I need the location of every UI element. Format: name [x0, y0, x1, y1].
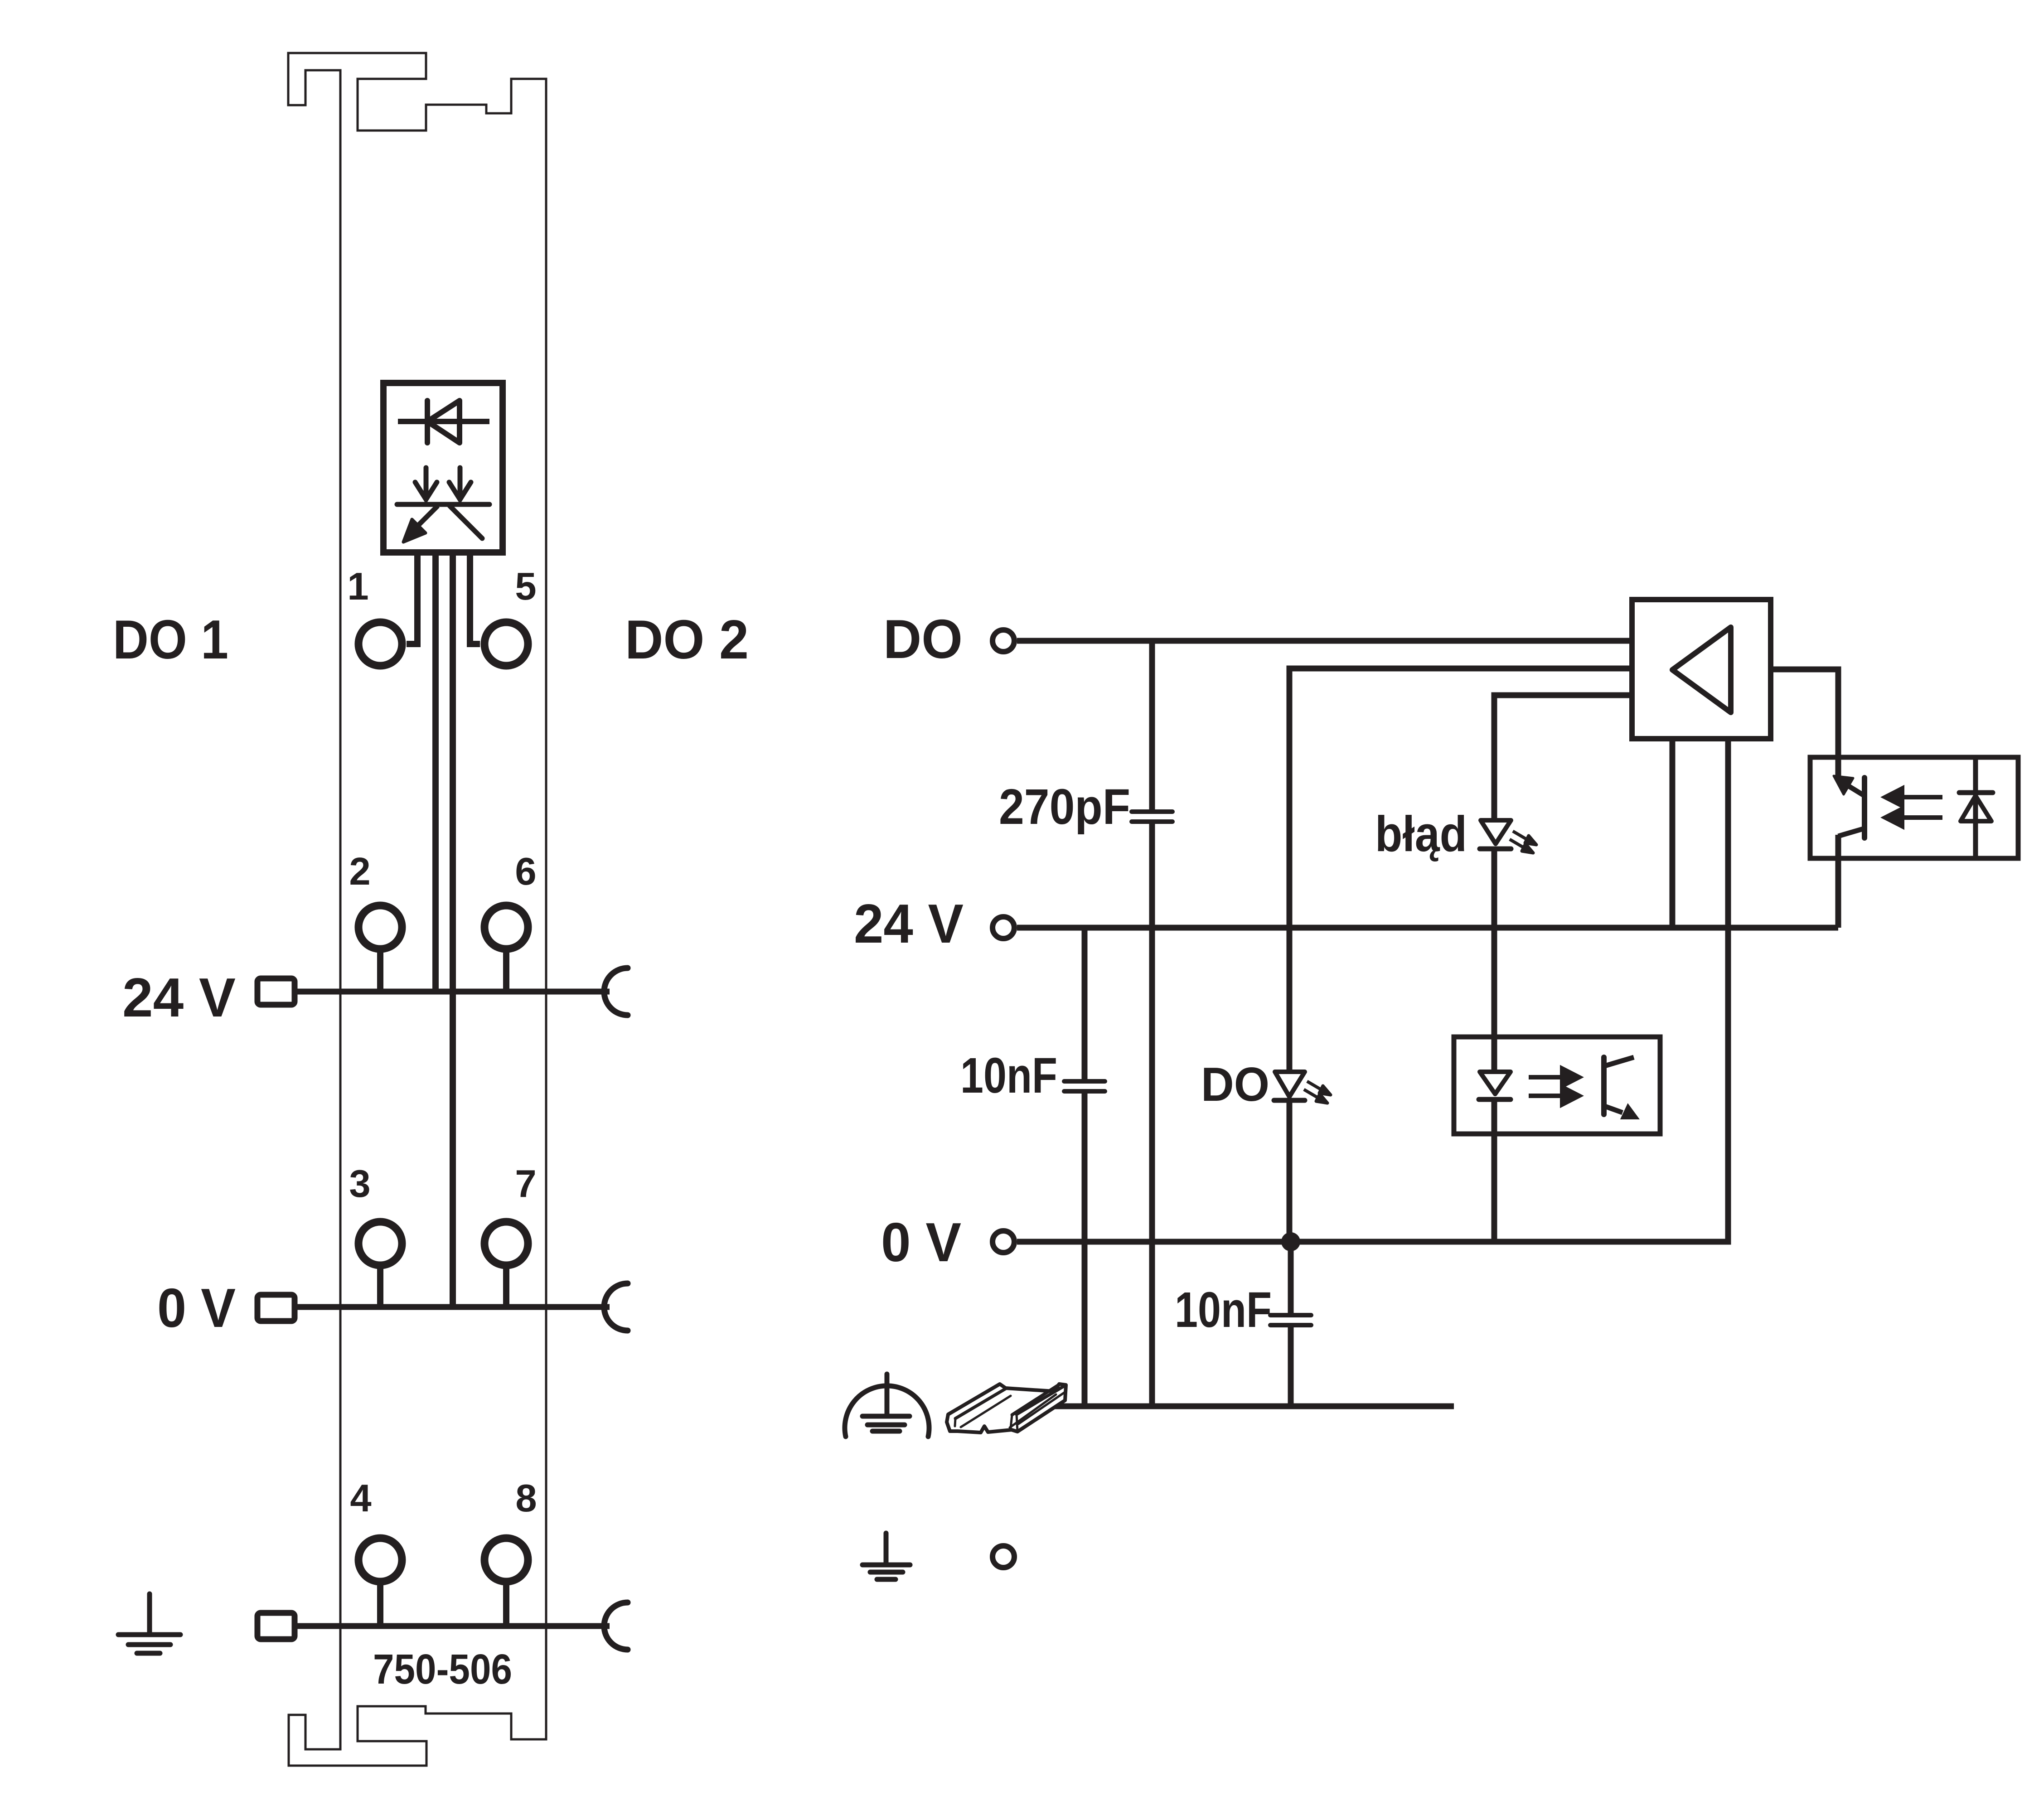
svg-text:0 V: 0 V — [157, 1277, 236, 1339]
stem contact 4 — [377, 1584, 383, 1626]
module right edge wire — [545, 181, 547, 1739]
contact 8 circle — [484, 1538, 528, 1582]
24V terminal circle — [993, 917, 1014, 939]
capacitor C2 10nF branch wire upper — [1082, 928, 1088, 1079]
earth clamp arc left — [604, 1602, 628, 1650]
svg-text:8: 8 — [515, 1477, 537, 1520]
LED D3 cathode bar — [1479, 1097, 1511, 1102]
pin wire 5 from box — [470, 552, 480, 644]
wire opto2 LED down to 0V — [1492, 1099, 1497, 1242]
svg-text:5: 5 — [515, 565, 536, 608]
optocoupler 1 box — [1810, 757, 2018, 858]
LED D3 triangle in opto 2 — [1480, 1072, 1511, 1094]
svg-text:3: 3 — [349, 1162, 370, 1205]
diode D1 axis wire — [398, 419, 489, 424]
svg-text:270pF: 270pF — [999, 779, 1130, 835]
svg-text:6: 6 — [515, 850, 536, 893]
diode D1 cathode bar — [425, 401, 430, 443]
stem contact 2 — [377, 952, 383, 992]
stem contact 3 — [377, 1268, 383, 1307]
module outline bottom — [289, 1677, 546, 1766]
0V terminal circle — [993, 1231, 1014, 1253]
svg-text:DO: DO — [1201, 1058, 1269, 1111]
LED pair arrow 1 — [415, 468, 437, 499]
amplifier triangle — [1672, 627, 1731, 712]
stem contact 8 — [503, 1584, 509, 1626]
bottom terminal circle — [993, 1546, 1014, 1568]
0V terminal rect left — [257, 1295, 295, 1321]
pin wire to 0V rail — [450, 552, 456, 1307]
phototransistor Q1 base bar — [1862, 778, 1867, 838]
earth rail wire left — [295, 1623, 610, 1629]
diode D2 cathode bar — [1959, 790, 1993, 795]
svg-text:7: 7 — [515, 1162, 536, 1205]
wire DO LED down to junction — [1287, 1100, 1293, 1242]
24V clamp arc left — [604, 968, 628, 1015]
optocoupler 2 box — [1454, 1037, 1660, 1134]
LED DO cathode bar — [1274, 1098, 1305, 1103]
24V rail wire left — [295, 989, 610, 995]
amplifier box U2 — [1632, 600, 1771, 739]
phototransistor Q1 collector — [1838, 828, 1864, 836]
contact 7 circle — [484, 1222, 528, 1265]
capacitor C2 10nF plates — [1064, 1079, 1105, 1084]
svg-text:błąd: błąd — [1375, 806, 1467, 862]
LED pair indicator bar — [397, 502, 489, 507]
junction dot 0V/10nF — [1281, 1232, 1300, 1251]
DO LED emission arrows — [1304, 1081, 1331, 1103]
0V net wire with riser to amp — [1017, 739, 1728, 1242]
stem contact 7 — [503, 1268, 509, 1307]
contact 6 circle — [484, 905, 528, 949]
24V terminal rect left — [257, 978, 295, 1005]
earth terminal rect left — [257, 1613, 295, 1639]
contact 3 circle — [358, 1222, 402, 1265]
capacitor C3 10nF branch wire upper — [1288, 1242, 1294, 1313]
svg-text:0 V: 0 V — [881, 1211, 961, 1273]
svg-text:1: 1 — [347, 565, 368, 608]
capacitor C1 270pF branch wire lower — [1149, 824, 1155, 1406]
svg-text:2: 2 — [349, 850, 370, 893]
opto 2 light arrows — [1529, 1069, 1579, 1104]
diode D2 triangle — [1961, 796, 1991, 821]
wire optocoupler 1 to 24V end — [1835, 835, 1841, 928]
wire A to amp (DO LED branch) — [1289, 668, 1632, 1070]
amp output wire to optocoupler 1 — [1771, 669, 1838, 779]
phototransistor Q1 emitter arrow — [1845, 784, 1864, 796]
phototransistor Q2 emitter arrow — [1605, 1106, 1622, 1113]
phototransistor Q2 base bar — [1601, 1057, 1607, 1114]
DIN rail icon — [947, 1384, 1066, 1433]
svg-text:24 V: 24 V — [854, 893, 964, 954]
DO net wire — [1017, 638, 1632, 644]
stem contact 6 — [503, 952, 509, 992]
LED DO triangle — [1275, 1072, 1305, 1097]
svg-text:DO 2: DO 2 — [625, 609, 749, 670]
wire blad LED to optocoupler 2 — [1492, 849, 1497, 1072]
diode D1 triangle — [427, 401, 460, 443]
contact 4 circle — [358, 1538, 402, 1582]
wire B horizontal to amp (blad branch) — [1494, 695, 1632, 818]
LED blad triangle — [1481, 820, 1511, 844]
svg-text:750-506: 750-506 — [373, 1646, 512, 1693]
capacitor C3 10nF plates — [1270, 1313, 1311, 1317]
contact 5 circle — [484, 622, 528, 666]
capacitor C1 270pF branch wire upper — [1149, 641, 1155, 810]
LED emission line 2 — [450, 506, 482, 538]
opto 1 light arrows — [1885, 789, 1942, 826]
capacitor C1 270pF plates — [1132, 809, 1172, 814]
blad LED emission arrows — [1510, 831, 1536, 853]
0V rail wire left — [295, 1304, 610, 1310]
diode D2 wire in opto 1 — [1973, 757, 1978, 858]
bottom ground symbol — [862, 1533, 910, 1579]
functional earth rail wire — [1045, 1404, 1454, 1409]
pin wire 1 from box — [407, 552, 417, 644]
contact 1 circle — [358, 622, 402, 666]
module left edge wire — [339, 181, 342, 1749]
svg-text:DO: DO — [883, 608, 963, 670]
pin wire to 24V rail — [432, 552, 439, 992]
svg-text:24 V: 24 V — [122, 967, 236, 1028]
svg-text:4: 4 — [350, 1477, 371, 1520]
DO terminal circle — [993, 630, 1014, 652]
shield ground symbol with dome — [845, 1374, 929, 1437]
LED blad cathode bar — [1480, 847, 1511, 852]
svg-text:DO 1: DO 1 — [113, 609, 228, 670]
phototransistor Q2 collector — [1605, 1057, 1634, 1066]
capacitor C3 10nF branch wire lower — [1288, 1327, 1294, 1406]
24V net wire — [1017, 925, 1838, 931]
ground symbol module — [118, 1594, 180, 1653]
LED indicator box U1 — [383, 383, 503, 552]
svg-text:10nF: 10nF — [960, 1048, 1057, 1104]
amp bottom pin to 24V — [1670, 739, 1676, 928]
contact 2 circle — [358, 905, 402, 949]
LED emission arrow with head — [403, 506, 438, 542]
svg-text:10nF: 10nF — [1175, 1282, 1272, 1338]
module outline top — [288, 53, 546, 181]
LED pair arrow 2 — [449, 468, 471, 499]
capacitor C2 10nF branch wire lower — [1082, 1094, 1088, 1406]
0V clamp arc left — [604, 1283, 628, 1331]
